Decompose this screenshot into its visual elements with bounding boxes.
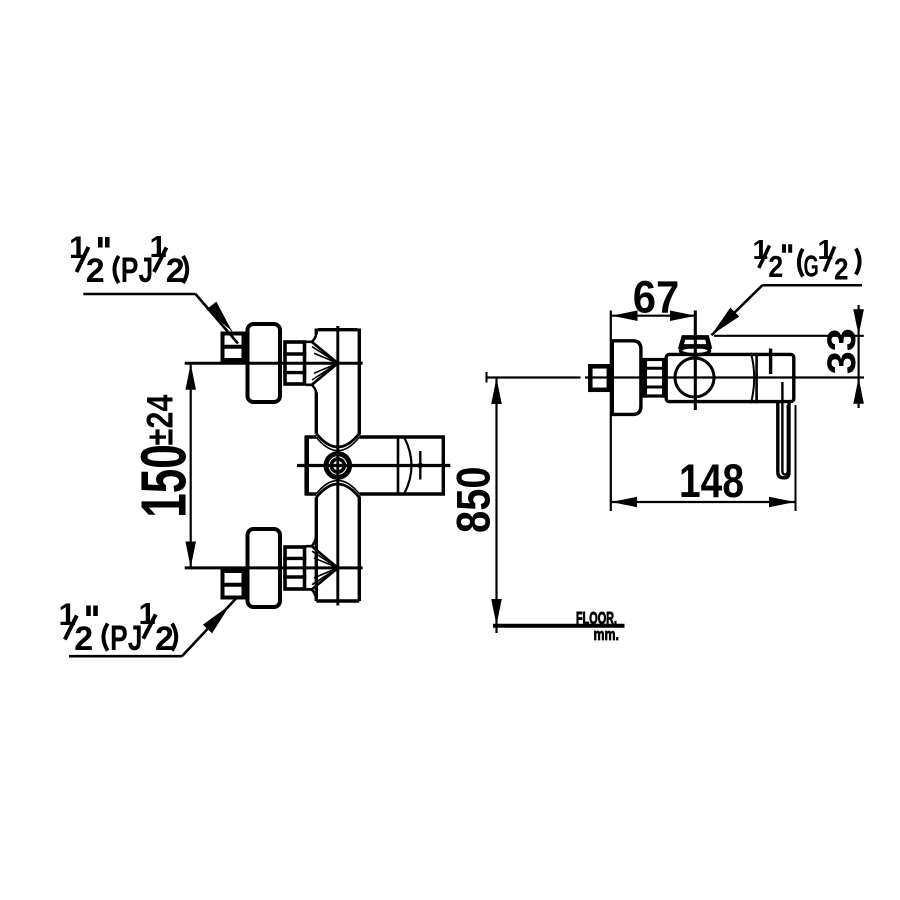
svg-text:1: 1 [69, 229, 87, 265]
svg-text:148: 148 [679, 454, 744, 507]
svg-text:G: G [804, 249, 819, 284]
svg-text:mm.: mm. [594, 625, 620, 644]
svg-text:2: 2 [86, 252, 105, 290]
svg-text:850: 850 [447, 466, 500, 533]
svg-text:2: 2 [155, 620, 174, 658]
svg-text:2: 2 [74, 620, 93, 658]
svg-text:±24: ±24 [140, 394, 181, 445]
svg-text:1: 1 [150, 229, 167, 264]
svg-text:2: 2 [768, 249, 783, 284]
svg-text:1: 1 [139, 596, 156, 631]
svg-text:2: 2 [834, 252, 849, 287]
svg-text:2: 2 [166, 252, 185, 290]
svg-text:PJ: PJ [121, 251, 154, 290]
svg-text:33: 33 [820, 328, 864, 374]
svg-text:1: 1 [818, 234, 834, 265]
svg-text:150: 150 [128, 444, 200, 518]
svg-text:1: 1 [753, 234, 769, 265]
svg-text:67: 67 [633, 272, 680, 323]
